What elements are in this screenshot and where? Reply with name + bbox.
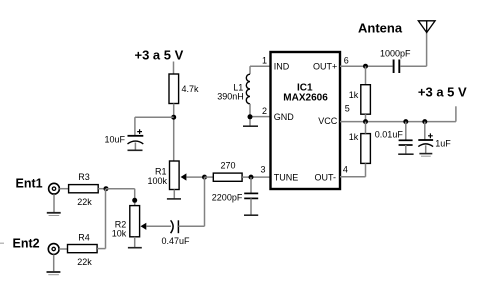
svg-text:R4: R4 [78,233,90,243]
pin 4 label OUT- [315,165,348,183]
resistor 4.7k [169,74,199,104]
wire 1000pF to antenna [400,33,426,67]
op-amp U1 body: IC1 MAX2606 [271,52,341,189]
potentiometer R1 100k [148,161,187,190]
ground (2200pF) [244,214,258,216]
wire 270 to TUNE pin 3 [242,176,270,178]
svg-text:10k: 10k [112,229,127,239]
svg-text:390nH: 390nH [217,92,244,102]
node 4.7k/10uF junction [171,115,176,120]
pin 2 label GND [262,106,294,122]
svg-text:4.7k: 4.7k [182,84,200,94]
ground (0.01uF) [398,153,413,155]
ground (R1) [167,198,181,200]
node R1/270/0.47uF junction [202,175,207,180]
label Antena [358,21,403,36]
antenna symbol [418,21,435,33]
wire R2 wiper to 0.47uF [146,225,171,227]
ground (Ent1) [47,213,61,216]
resistor 270 [213,161,242,182]
svg-text:1: 1 [262,55,267,65]
capacitor 0.01uF [375,122,413,154]
pin 3 label TUNE [261,165,299,183]
svg-text:1000pF: 1000pF [380,48,411,58]
wire supply to R 4.7k [173,62,175,75]
label Ent1 [16,177,43,191]
capacitor 2200pF [212,177,258,215]
svg-text:1k: 1k [349,90,359,100]
ground (10uF) [128,149,143,151]
wire R1 bottom to ground [173,190,175,199]
svg-text:10uF: 10uF [105,135,126,145]
node R3/R4 junction [104,186,109,191]
wire Ent1 to R3 [59,188,68,190]
capacitor 0.47uF [162,220,191,246]
ground (Ent2) [47,272,61,275]
resistor 1k (upper) [349,66,371,121]
ground (1uF) [419,154,432,157]
node R2 top junction [132,198,137,203]
label +3 a 5 V (right supply) [418,85,467,100]
svg-text:IND: IND [274,62,290,72]
svg-text:5: 5 [345,104,350,114]
svg-text:+3 a 5 V: +3 a 5 V [418,85,467,100]
wire Ent1 to ground [53,194,55,212]
ground (pin 2) [243,125,258,127]
wire IND pin 1 to L1 [250,66,271,74]
connector Ent2 jack [48,244,59,255]
svg-text:Antena: Antena [358,21,403,36]
wire Ent2 to R4 [59,248,67,250]
svg-text:TUNE: TUNE [274,172,299,182]
pin 6 label OUT+ [313,55,349,71]
wire node to R2 top [106,189,135,206]
svg-text:OUT+: OUT+ [313,62,337,72]
pin 5 label VCC [318,104,349,126]
resistor R3 22k [69,172,99,207]
svg-text:1uF: 1uF [435,138,451,148]
node OUT+/1k junction [363,64,368,69]
wire R3 to node [98,188,106,190]
capacitor 1000pF [380,48,411,73]
capacitor 1uF [418,122,451,154]
wire L1 to GND pin 2 [250,104,271,126]
node 0.01uF junction [403,119,408,124]
svg-text:22k: 22k [77,257,92,267]
wire R1 wiper to node [186,176,204,178]
wire R4 to R3 node [97,189,105,249]
svg-text:MAX2606: MAX2606 [283,92,328,103]
svg-text:3: 3 [261,165,266,175]
label Ent2 [13,237,40,251]
node 1uF junction [422,119,427,124]
node L1/GND junction [248,114,253,119]
resistor R4 22k [68,233,98,268]
svg-text:0.01uF: 0.01uF [375,129,404,139]
svg-text:6: 6 [344,55,349,65]
wire junction to 10uF [135,117,174,135]
svg-text:100k: 100k [148,176,168,186]
svg-text:22k: 22k [77,197,92,207]
svg-text:2200pF: 2200pF [212,193,243,203]
svg-text:Ent1: Ent1 [16,177,43,191]
wire 4.7k to R1 [173,104,175,162]
wire OUT+ pin 6 to 1000pF [340,65,393,67]
wire 1k to OUT- pin 4 [340,163,366,176]
pin 1 label IND [262,55,290,71]
node 270/2200pF junction [249,175,254,180]
wire stub (left edge artifact) [0,242,4,244]
wire 0.47uF to node [178,177,204,226]
svg-text:Ent2: Ent2 [13,237,40,251]
label +3 a 5 V (left supply) [135,48,184,63]
resistor 1k (lower) [349,122,371,164]
svg-text:OUT-: OUT- [315,172,337,182]
wire node to 270 [205,176,214,178]
svg-text:+3 a 5 V: +3 a 5 V [135,48,184,63]
ground (R2) [128,247,142,249]
svg-text:0.47uF: 0.47uF [162,236,191,246]
svg-text:4: 4 [343,165,348,175]
svg-text:270: 270 [221,161,236,171]
node 1k/1k VCC junction [363,119,368,124]
svg-text:1k: 1k [349,132,359,142]
wire VCC pin 5 rail [340,106,456,121]
capacitor 10uF [105,129,144,150]
svg-text:R3: R3 [78,172,90,182]
wire Ent2 to ground [53,255,55,272]
svg-text:GND: GND [274,112,295,122]
connector Ent1 jack [49,183,60,194]
potentiometer R2 10k [112,206,147,239]
svg-text:VCC: VCC [318,116,338,126]
inductor L1 390nH [217,74,250,104]
wire R2 bottom to ground [134,237,136,248]
svg-text:2: 2 [262,106,267,116]
